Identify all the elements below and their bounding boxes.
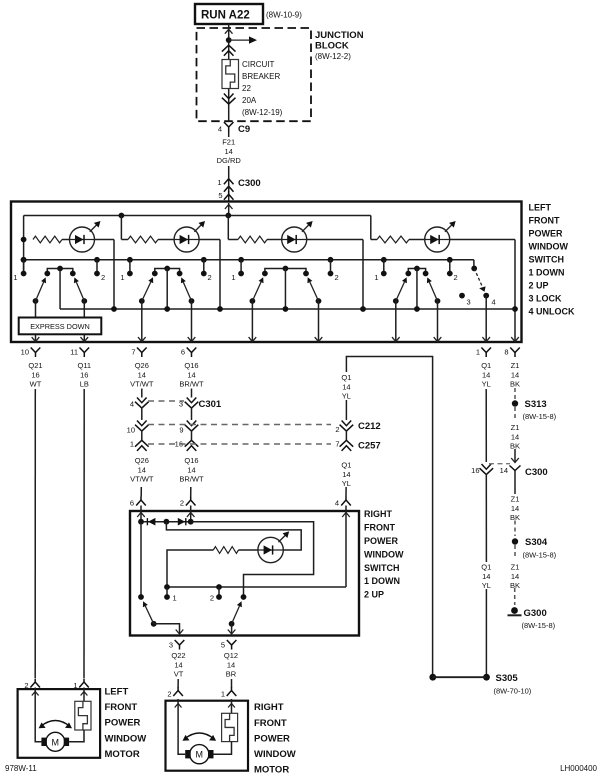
switch 4 contact 1: [381, 257, 387, 263]
svg-text:3 LOCK: 3 LOCK: [529, 294, 563, 304]
wire from RUN A22 into junction block: [228, 24, 230, 60]
wire lamp return to pin 4 line: [167, 550, 213, 587]
wire between C212 and C257 rows col4: [191, 430, 193, 440]
wire lamp branch right switch: [166, 522, 301, 550]
svg-text:(8W-12-19): (8W-12-19): [242, 108, 283, 117]
left front power window motor box: [18, 689, 101, 758]
svg-text:14: 14: [482, 370, 490, 379]
illumination lamp LED 2: [174, 227, 199, 252]
svg-text:POWER: POWER: [254, 733, 290, 744]
svg-text:FRONT: FRONT: [529, 216, 560, 226]
svg-text:1: 1: [217, 178, 221, 187]
switch 1 rocker center: [57, 266, 63, 272]
svg-text:BR/WT: BR/WT: [179, 475, 204, 484]
svg-text:C212: C212: [358, 421, 381, 432]
svg-text:WINDOW: WINDOW: [105, 733, 147, 744]
svg-text:LH000400: LH000400: [560, 764, 597, 773]
switch 4 right wiper: [435, 298, 441, 304]
svg-text:4: 4: [130, 400, 134, 409]
svg-text:SWITCH: SWITCH: [364, 563, 400, 573]
express down box: [19, 318, 102, 335]
wire circuit breaker to C9: [228, 89, 230, 123]
switch 4 right wiper wire to box bottom: [437, 301, 439, 342]
pin 2 entry left motor: [30, 682, 40, 688]
svg-text:10: 10: [21, 348, 29, 357]
wire lamp 3 to return bus: [362, 240, 364, 310]
wire between C212 and C257 rows col3: [141, 430, 143, 440]
wire between C301 and C212 rows col3: [141, 407, 143, 420]
wire left wiper to pin 3: [154, 624, 180, 634]
svg-text:C300: C300: [238, 178, 261, 189]
right motor rotation arrow: [184, 733, 214, 739]
svg-text:9: 9: [179, 426, 183, 435]
svg-text:2 UP: 2 UP: [364, 590, 384, 600]
wire breaker to brush right motor: [214, 742, 232, 755]
svg-text:14: 14: [138, 465, 146, 474]
switch 4 rocker center: [414, 266, 420, 272]
svg-text:M: M: [196, 750, 204, 760]
dashed wire below S304: [514, 545, 516, 558]
svg-text:1: 1: [231, 273, 235, 282]
resistor R3 illumination lamp 3: [238, 236, 267, 243]
illumination lamp LED 3: [282, 227, 307, 252]
svg-text:14: 14: [482, 572, 490, 581]
svg-text:2: 2: [101, 273, 105, 282]
svg-text:CIRCUIT: CIRCUIT: [242, 60, 275, 69]
wire R1 to lamp 1: [62, 239, 70, 241]
wire feed resistor 3: [227, 216, 229, 240]
switch 1 rocker bracket: [47, 269, 73, 274]
wire between C301 and C212 rows col4: [191, 407, 193, 420]
svg-text:C9: C9: [238, 124, 250, 135]
svg-text:RUN A22: RUN A22: [201, 10, 250, 22]
switch 2 rocker bracket: [155, 269, 180, 274]
svg-text:M: M: [52, 737, 60, 747]
svg-text:MOTOR: MOTOR: [105, 749, 140, 760]
svg-text:WINDOW: WINDOW: [364, 549, 404, 559]
left front power window switch box: [11, 202, 522, 343]
svg-text:16: 16: [471, 466, 479, 475]
wire lamp return to pin 8: [514, 240, 516, 342]
svg-text:7: 7: [131, 348, 135, 357]
contact 1 right switch: [166, 587, 168, 597]
switch 2 left wiper: [139, 298, 145, 304]
pin 6: [187, 348, 197, 353]
svg-text:1: 1: [120, 273, 124, 282]
lock switch contact 3: [459, 293, 465, 299]
svg-text:(8W-12-2): (8W-12-2): [315, 52, 351, 61]
svg-text:YL: YL: [482, 380, 491, 389]
wire Q21 16 WT pin10 to left motor: [34, 389, 36, 678]
right front power window switch box: [130, 511, 359, 636]
switch 2 center to return bus: [166, 269, 168, 310]
svg-text:VT/WT: VT/WT: [130, 380, 154, 389]
svg-text:7: 7: [335, 440, 339, 449]
svg-text:EXPRESS DOWN: EXPRESS DOWN: [30, 322, 90, 331]
switch supply contact bus: [24, 259, 474, 261]
contact 2 right switch: [218, 587, 220, 597]
svg-text:YL: YL: [342, 392, 351, 401]
svg-text:Q26: Q26: [135, 361, 149, 370]
wire Q1 14 YL pin 1 down to S305: [485, 389, 487, 462]
svg-text:14: 14: [138, 370, 146, 379]
wire Z1 below C300: [514, 471, 516, 495]
svg-text:BR/WT: BR/WT: [179, 380, 204, 389]
svg-text:WINDOW: WINDOW: [529, 242, 569, 252]
switch 3 rocker bracket: [265, 269, 306, 274]
right wiper right switch: [241, 594, 247, 600]
connector C212 pin 9: [187, 421, 197, 426]
svg-text:C301: C301: [199, 399, 222, 410]
switch 1 contact 2: [94, 257, 100, 263]
svg-text:POWER: POWER: [105, 718, 141, 729]
wire F21 14 DG/RD: [228, 132, 230, 138]
svg-text:6: 6: [130, 499, 134, 508]
pin 2 entry right switch: [186, 500, 196, 506]
svg-text:6: 6: [181, 348, 185, 357]
wire R4 to lamp 4: [409, 239, 425, 241]
svg-text:20A: 20A: [242, 96, 257, 105]
svg-text:Z1: Z1: [511, 361, 520, 370]
wire feed resistor 4: [370, 216, 372, 240]
right motor M circle: [190, 745, 209, 764]
switch 3 rocker center: [283, 266, 289, 272]
wire pin 4 into right switch: [345, 506, 347, 588]
svg-text:Q1: Q1: [481, 562, 491, 571]
svg-text:14: 14: [227, 660, 235, 669]
switch 2 contact 1: [127, 257, 133, 263]
left wiper right switch: [151, 621, 157, 627]
left motor rotation arrow: [41, 721, 71, 727]
wire Q1 14 YL to right switch pin 4: [345, 487, 347, 497]
dashed link C300: [489, 463, 510, 465]
switch 4 rocker bracket: [408, 269, 425, 274]
wire feed resistor 2: [120, 216, 122, 240]
switch 2 contact 2: [201, 257, 207, 263]
svg-text:(8W-10-9): (8W-10-9): [266, 11, 302, 20]
svg-text:1: 1: [221, 690, 225, 699]
diode D1 pointing left: [146, 518, 148, 525]
svg-text:Q22: Q22: [171, 651, 185, 660]
pin 6 entry right switch: [136, 500, 146, 506]
svg-text:14: 14: [511, 504, 519, 513]
wire pin2 inside left motor: [35, 688, 41, 742]
svg-text:4: 4: [335, 499, 339, 508]
svg-text:YL: YL: [482, 581, 491, 590]
svg-text:SWITCH: SWITCH: [529, 255, 565, 265]
svg-text:Q1: Q1: [341, 460, 351, 469]
svg-text:Q16: Q16: [184, 456, 198, 465]
switch 4 left wiper wire to box bottom: [395, 301, 397, 342]
pin 5 right switch: [227, 640, 237, 645]
svg-text:16: 16: [31, 370, 39, 379]
svg-text:Z1: Z1: [511, 423, 520, 432]
svg-text:BK: BK: [510, 380, 520, 389]
wire lock contact 4 to pin 1: [485, 296, 487, 342]
pin 1: [481, 348, 491, 353]
wire between C212 and C257: [345, 430, 347, 440]
connector chevrons above circuit breaker: [222, 45, 236, 51]
svg-text:Q16: Q16: [184, 361, 198, 370]
connector C301 pin 3: [187, 398, 197, 403]
wire C300 to left front power window switch: [228, 166, 230, 202]
junction lamp bus / resistor 2 feed: [119, 213, 125, 219]
wire pin5 to lamp bus: [228, 203, 230, 216]
illumination lamp LED 4: [425, 227, 450, 252]
svg-text:1: 1: [130, 440, 134, 449]
svg-text:F21: F21: [222, 137, 235, 146]
wire pin1 inside left motor: [83, 688, 85, 702]
resistor R4 illumination lamp 4: [377, 236, 409, 243]
switch 2 left wiper wire to box bottom: [141, 301, 143, 342]
pin 11: [80, 348, 90, 353]
resistor right switch lamp: [213, 547, 238, 554]
wire pin 2 into right switch: [190, 506, 192, 522]
wire right wiper to pin 5: [231, 624, 233, 634]
switch 1 left wiper: [33, 298, 39, 304]
wire Q11 16 LB pin11 to left motor: [83, 389, 85, 678]
svg-text:WT: WT: [30, 380, 42, 389]
svg-text:2: 2: [210, 594, 214, 603]
svg-text:14: 14: [500, 466, 508, 475]
wire lamp 4 out: [450, 239, 515, 241]
dashed wire to G300: [514, 588, 516, 605]
diode line in right switch: [141, 521, 191, 523]
wire pin 6 into right switch: [140, 506, 142, 522]
splice S305: [429, 674, 436, 681]
junction resistor 1 feed: [21, 237, 27, 243]
circuit breaker right motor: [222, 713, 238, 741]
circuit breaker left motor: [75, 701, 91, 730]
svg-text:14: 14: [225, 147, 233, 156]
dashed wire to S304: [514, 521, 516, 537]
svg-text:4: 4: [492, 298, 496, 307]
svg-text:4 UNLOCK: 4 UNLOCK: [529, 307, 576, 317]
svg-text:DG/RD: DG/RD: [217, 156, 242, 165]
resistor R2 illumination lamp 2: [128, 236, 158, 243]
switch 2 rocker center: [164, 266, 170, 272]
pin 10: [31, 348, 41, 353]
svg-text:(8W-15-8): (8W-15-8): [523, 551, 557, 560]
svg-text:2: 2: [208, 273, 212, 282]
wire lamp 1 to return bus: [113, 240, 115, 310]
svg-text:10: 10: [127, 426, 135, 435]
svg-text:2: 2: [335, 425, 339, 434]
pin 3 right switch: [175, 640, 185, 645]
svg-text:Z1: Z1: [511, 494, 520, 503]
switch 3 left wiper: [250, 298, 256, 304]
wire pin 4 horizontal line: [167, 586, 346, 588]
lamp feed bus: [24, 215, 371, 217]
connector C257 pin 16: [185, 440, 199, 446]
svg-text:978W-11: 978W-11: [5, 764, 37, 773]
wire Q16 14 BR/WT to right switch pin 2: [190, 487, 192, 497]
svg-text:FRONT: FRONT: [105, 702, 138, 713]
svg-text:14: 14: [511, 572, 519, 581]
wire contact bus to lock switch pivot: [473, 260, 475, 269]
svg-text:8: 8: [504, 348, 508, 357]
svg-text:JUNCTION: JUNCTION: [315, 30, 364, 41]
svg-text:1 DOWN: 1 DOWN: [529, 268, 565, 278]
svg-text:22: 22: [242, 84, 251, 93]
svg-text:2 UP: 2 UP: [529, 281, 549, 291]
svg-text:Q1: Q1: [481, 361, 491, 370]
diode D2 pointing right: [178, 518, 185, 526]
wire lamp 2 to return bus: [219, 240, 221, 310]
pin 1 entry right motor: [227, 691, 237, 697]
connector C300 pin 16: [482, 464, 492, 469]
svg-text:Q21: Q21: [28, 361, 42, 370]
svg-text:YL: YL: [342, 479, 351, 488]
wire Q22 14 VT pin3 to right motor: [177, 679, 179, 688]
svg-text:(8W-70-10): (8W-70-10): [494, 687, 532, 696]
svg-text:FRONT: FRONT: [364, 523, 395, 533]
switch 4 left wiper: [393, 298, 399, 304]
svg-text:LEFT: LEFT: [105, 687, 129, 698]
svg-text:2: 2: [335, 273, 339, 282]
switch 4 center to return bus: [416, 269, 418, 310]
switch 1 right wiper wire to box bottom: [83, 301, 85, 342]
svg-text:C300: C300: [525, 467, 548, 478]
svg-text:Q1: Q1: [341, 373, 351, 382]
svg-text:VT/WT: VT/WT: [130, 475, 154, 484]
splice S304: [512, 538, 518, 544]
svg-text:Q12: Q12: [224, 651, 238, 660]
svg-text:5: 5: [221, 641, 225, 650]
wire pin2 node wrap to right wiper contact: [191, 522, 314, 597]
svg-text:POWER: POWER: [364, 536, 399, 546]
pin 7: [137, 348, 147, 353]
connector C212 pin 2: [342, 421, 352, 426]
wire Q1 14 YL C300 to S305: [485, 474, 487, 563]
switch 3 right wiper wire to box bottom: [318, 301, 320, 342]
svg-text:3: 3: [169, 641, 173, 650]
ground G300: [511, 607, 518, 614]
junction block dashed box: [197, 28, 312, 121]
dashed link C301: [148, 400, 184, 402]
circuit breaker 22 20A: [222, 60, 239, 89]
wire Q1 14 YL bridge below switch: [346, 357, 432, 678]
svg-text:Q11: Q11: [77, 361, 91, 370]
switch 2 right wiper wire to box bottom: [191, 301, 193, 342]
wire Q26 14 VT/WT to right switch pin 6: [140, 487, 142, 497]
wire left feed down to contact 1 of down/up switch 1: [23, 216, 25, 274]
svg-text:BLOCK: BLOCK: [315, 41, 349, 52]
wire breaker to brush: [69, 730, 84, 742]
switch 1 right wiper: [81, 298, 87, 304]
node junction block feed: [226, 37, 232, 43]
pin 4 entry right switch: [341, 500, 351, 506]
switch 1 contact 1: [21, 257, 27, 263]
dashed link C212: [148, 424, 331, 426]
svg-text:BR: BR: [226, 670, 237, 679]
wire Q1 14 YL to C212: [345, 400, 347, 420]
pin 5 entry of left front power window switch: [224, 194, 234, 200]
svg-text:Z1: Z1: [511, 562, 520, 571]
right motor brushes: [185, 750, 191, 758]
svg-text:G300: G300: [524, 608, 547, 619]
svg-text:2: 2: [180, 499, 184, 508]
svg-text:14: 14: [174, 660, 182, 669]
svg-text:5: 5: [218, 191, 222, 200]
wire pin1 inside right motor: [231, 699, 233, 713]
svg-text:14: 14: [187, 370, 195, 379]
svg-text:LB: LB: [80, 380, 89, 389]
svg-text:14: 14: [511, 432, 519, 441]
svg-text:LEFT: LEFT: [529, 203, 552, 213]
lock switch pivot: [471, 266, 477, 272]
wire R3 to lamp 3: [267, 239, 282, 241]
svg-text:2: 2: [167, 690, 171, 699]
illumination lamp LED right switch: [258, 537, 283, 562]
junction lamp bus / pin 5: [225, 213, 231, 219]
svg-text:POWER: POWER: [529, 229, 564, 239]
illumination lamp LED 1: [70, 227, 95, 252]
lock switch wiper dashed: [474, 268, 482, 286]
connector C9: [224, 122, 234, 127]
wire Z1 into C300: [514, 449, 516, 462]
svg-text:RIGHT: RIGHT: [364, 509, 393, 519]
wire lamp 2 out: [199, 239, 220, 241]
switch 3 right wiper: [316, 298, 322, 304]
switch 1 left wiper wire to box bottom: [35, 301, 37, 342]
switch 4 contact 2: [447, 257, 453, 263]
connector C212 pin 10: [137, 421, 147, 426]
svg-text:1: 1: [476, 348, 480, 357]
switch 3 center to return bus: [284, 269, 286, 310]
svg-text:RIGHT: RIGHT: [254, 702, 284, 713]
svg-text:1: 1: [173, 594, 177, 603]
svg-text:11: 11: [70, 348, 78, 357]
svg-text:S304: S304: [525, 537, 548, 548]
dashed wire below S313: [514, 407, 516, 419]
right front power window motor box: [166, 701, 249, 771]
wire lamp 3 out: [307, 239, 363, 241]
lamp return bus: [60, 308, 515, 310]
svg-text:16: 16: [80, 370, 88, 379]
connector C300 pin 1: [224, 179, 234, 185]
arrow to other circuits: [229, 39, 250, 41]
wire lamp 1 out: [95, 239, 115, 241]
svg-text:WINDOW: WINDOW: [254, 749, 296, 760]
svg-text:14: 14: [511, 370, 519, 379]
wire resistor to lamp: [239, 549, 259, 551]
svg-text:(8W-15-8): (8W-15-8): [522, 621, 556, 630]
svg-text:14: 14: [342, 382, 350, 391]
splice S313: [512, 400, 518, 406]
arrowhead pin 5 inside switch: [225, 205, 233, 210]
dashed link C257: [148, 443, 331, 445]
svg-text:14: 14: [342, 470, 350, 479]
svg-text:S305: S305: [496, 673, 519, 684]
pin 2 entry right motor: [173, 691, 183, 697]
svg-text:1: 1: [13, 273, 17, 282]
arrowhead into junction block: [225, 29, 233, 34]
wire R2 to lamp 2: [158, 239, 174, 241]
switch 3 contact 2: [328, 257, 334, 263]
wire pin2 inside right motor: [178, 699, 185, 754]
connector chevrons below circuit breaker: [224, 94, 234, 99]
svg-text:14: 14: [187, 465, 195, 474]
left motor M circle: [46, 732, 65, 751]
pin 8: [510, 348, 520, 353]
junction lamp return bus / pin 8 wire: [512, 306, 518, 312]
wire Q12 14 BR pin5 to right motor: [231, 679, 233, 688]
svg-text:2: 2: [454, 273, 458, 282]
svg-text:4: 4: [218, 125, 222, 134]
svg-text:(8W-15-8): (8W-15-8): [523, 412, 557, 421]
left pole right switch: [140, 522, 142, 597]
